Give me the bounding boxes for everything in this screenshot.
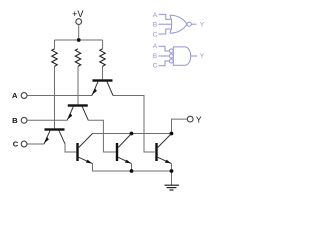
svg-text:C: C — [153, 63, 158, 70]
svg-text:A: A — [153, 12, 158, 19]
svg-text:A: A — [153, 43, 158, 50]
svg-text:Y: Y — [200, 53, 205, 60]
svg-text:C: C — [13, 140, 19, 149]
svg-text:+V: +V — [72, 9, 83, 19]
svg-text:B: B — [153, 22, 158, 29]
svg-text:Y: Y — [200, 22, 205, 29]
svg-text:B: B — [153, 53, 158, 60]
svg-text:B: B — [12, 116, 18, 125]
svg-text:A: A — [12, 91, 18, 100]
svg-text:C: C — [153, 31, 158, 38]
svg-text:Y: Y — [196, 114, 202, 124]
